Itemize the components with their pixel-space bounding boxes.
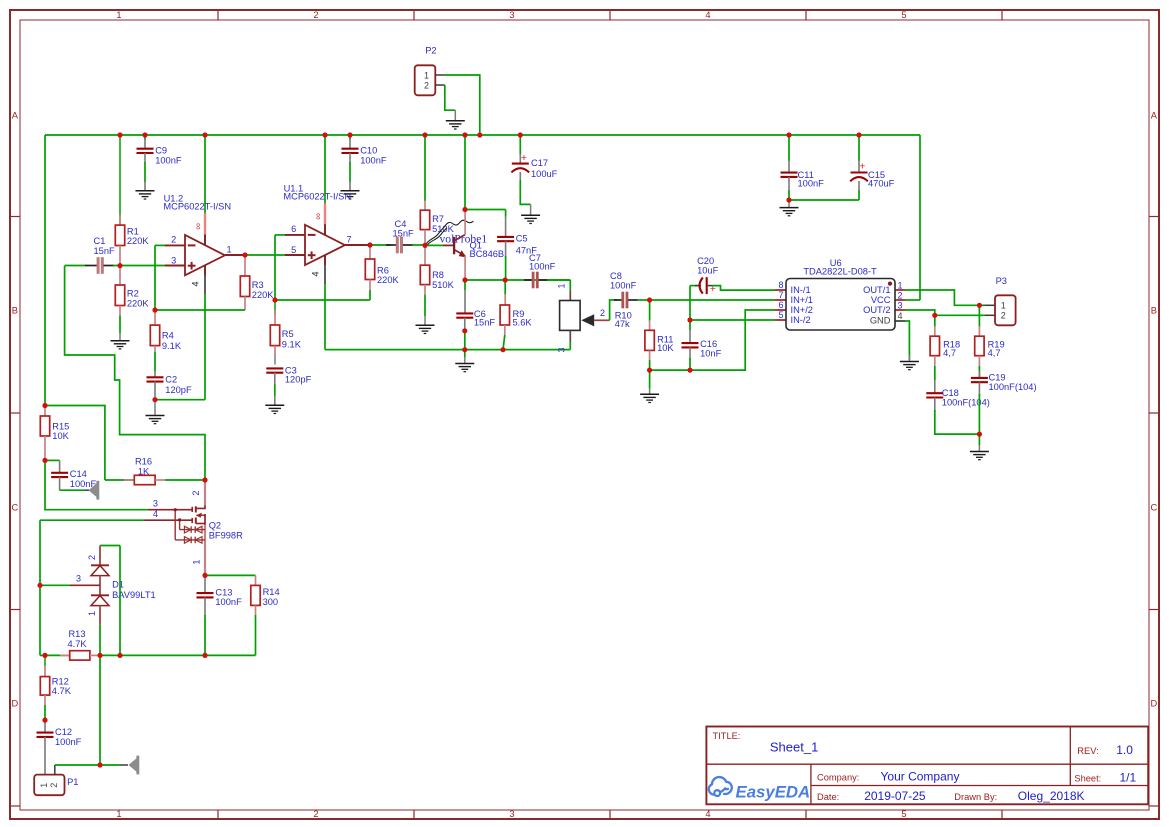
U1.2 power pin	[204, 135, 206, 214]
wire U6 OUT2 to P3 pin2	[905, 310, 985, 315]
junction node U1.1 output R6	[367, 242, 372, 247]
svg-text:Date:: Date:	[817, 792, 839, 802]
transistor Q1	[425, 244, 444, 246]
svg-text:2: 2	[313, 809, 318, 819]
title block	[706, 727, 1148, 805]
svg-text:510K: 510K	[432, 280, 455, 290]
junction node C5 R9 C7	[503, 277, 508, 282]
svg-text:1: 1	[557, 283, 567, 288]
capacitor C8	[614, 299, 622, 301]
wire R15 top to R16 drop	[45, 406, 105, 481]
ground for C3	[265, 404, 284, 406]
svg-text:4.7K: 4.7K	[67, 639, 87, 649]
svg-text:GND: GND	[870, 315, 891, 325]
svg-text:2: 2	[171, 235, 176, 245]
svg-text:3: 3	[898, 301, 903, 311]
svg-text:C18: C18	[942, 388, 959, 398]
svg-text:2: 2	[191, 490, 201, 495]
svg-text:1/1: 1/1	[1120, 770, 1137, 784]
svg-text:4,7: 4,7	[988, 348, 1001, 358]
junction node R15 top	[42, 403, 47, 408]
pin 2 stub of P2	[435, 84, 445, 86]
pin dot Q2 gate2	[178, 518, 181, 521]
wire pot wiper riser to C8	[610, 300, 617, 320]
resistor R12	[44, 655, 46, 666]
svg-text:P2: P2	[425, 45, 436, 55]
svg-text:220K: 220K	[127, 298, 150, 308]
svg-text:100nF: 100nF	[798, 179, 825, 189]
junction node R13 R12	[42, 653, 47, 658]
svg-text:4: 4	[311, 271, 321, 276]
resistor R4	[154, 310, 156, 325]
svg-text:100nF: 100nF	[55, 737, 82, 747]
svg-text:+: +	[859, 160, 865, 172]
svg-text:100nF: 100nF	[529, 261, 556, 271]
svg-text:4: 4	[705, 809, 710, 819]
capacitor C5	[505, 210, 507, 217]
svg-text:1: 1	[1001, 301, 1006, 311]
capacitor C7	[524, 279, 532, 281]
resistor R14	[205, 574, 256, 576]
junction node C13 row	[202, 653, 207, 658]
svg-text:+: +	[710, 283, 716, 295]
ground for C10	[341, 190, 360, 192]
junction node R5 R6	[272, 297, 277, 302]
ground for C17	[530, 204, 532, 214]
pin dot Q2 gate1	[174, 508, 177, 511]
op-amp U1.2	[165, 244, 185, 246]
svg-text:Oleg_2018K: Oleg_2018K	[1018, 789, 1085, 803]
svg-text:4.7K: 4.7K	[52, 686, 72, 696]
svg-text:TITLE:: TITLE:	[713, 731, 741, 741]
wire input feedback stepped path	[65, 266, 205, 480]
net flag arrow at P1	[129, 758, 137, 772]
capacitor C6	[464, 280, 466, 290]
svg-text:120pF: 120pF	[165, 385, 192, 395]
capacitor C14	[45, 459, 60, 461]
junction rail C10	[347, 132, 352, 137]
svg-text:R16: R16	[135, 457, 152, 467]
connector P3	[995, 295, 1016, 325]
wire C2 bottom to U1.2 pin4 drop	[155, 399, 205, 401]
svg-text:A: A	[12, 110, 19, 120]
svg-text:2: 2	[87, 555, 97, 560]
junction node R16 Q2 drain	[202, 477, 207, 482]
svg-text:P1: P1	[67, 777, 78, 787]
junction node Q2 source C13 R14	[202, 573, 207, 578]
svg-text:3: 3	[171, 255, 176, 265]
svg-text:6: 6	[778, 300, 783, 310]
pin 1 stub of P2	[435, 74, 445, 76]
ground for R2	[111, 340, 130, 342]
resistor R6	[369, 245, 371, 259]
junction rail R7	[422, 132, 427, 137]
net flag arrow at C14	[89, 483, 97, 497]
capacitor C2	[154, 371, 156, 377]
wire R15 bottom down to Q2 gate1	[45, 460, 148, 509]
svg-text:100nF(104): 100nF(104)	[989, 382, 1037, 392]
svg-text:220K: 220K	[377, 275, 400, 285]
svg-text:5: 5	[291, 245, 296, 255]
resistor R19	[978, 305, 980, 327]
junction node D1 pin3	[37, 583, 42, 588]
resistor R16	[105, 479, 134, 481]
signal row R13	[40, 654, 70, 656]
junction node R3 R4	[152, 307, 157, 312]
junction rail U1.1 power	[322, 132, 327, 137]
svg-text:47k: 47k	[615, 319, 630, 329]
junction rail U1.2 power	[202, 132, 207, 137]
svg-text:C12: C12	[55, 727, 72, 737]
svg-text:OUT/2: OUT/2	[863, 305, 890, 315]
capacitor C11	[788, 135, 790, 161]
svg-text:1: 1	[116, 809, 121, 819]
potentiometer R10	[569, 280, 571, 290]
svg-text:REV:: REV:	[1077, 746, 1098, 756]
ground for C2	[154, 400, 156, 415]
svg-text:4: 4	[153, 509, 158, 519]
svg-text:1: 1	[87, 611, 97, 616]
wire Q2 gate2 drop	[39, 520, 41, 655]
junction rail C17	[518, 132, 523, 137]
svg-text:2: 2	[600, 308, 605, 318]
svg-text:R1: R1	[127, 226, 139, 236]
svg-text:5: 5	[901, 809, 906, 819]
resistor R3	[244, 255, 246, 276]
transistor Q2 BF998R	[204, 480, 206, 507]
svg-text:C1: C1	[94, 236, 106, 246]
svg-text:3: 3	[557, 347, 567, 352]
svg-text:4: 4	[898, 311, 903, 321]
svg-text:5: 5	[901, 10, 906, 20]
svg-text:3: 3	[153, 499, 158, 509]
svg-text:EasyEDA: EasyEDA	[736, 782, 811, 801]
voltage probe volProbe1	[426, 227, 445, 245]
svg-text:C: C	[1150, 503, 1157, 513]
svg-text:470uF: 470uF	[868, 179, 895, 189]
wire C11 C15 bottoms	[789, 199, 859, 201]
svg-text:BC846B: BC846B	[470, 249, 505, 259]
resistor R15	[44, 406, 46, 417]
junction node R9 bottom	[500, 347, 505, 352]
svg-text:10uF: 10uF	[697, 266, 719, 276]
capacitor C4	[386, 244, 396, 246]
junction rail P2	[477, 132, 482, 137]
connector P2	[415, 65, 436, 95]
wire emitter node	[465, 279, 570, 281]
svg-text:9.1K: 9.1K	[282, 340, 302, 350]
svg-text:1: 1	[191, 559, 201, 564]
EasyEDA logo	[709, 777, 732, 796]
ground for C9	[136, 190, 155, 192]
junction node R12 C12	[42, 718, 47, 723]
svg-text:IN-/1: IN-/1	[791, 285, 811, 295]
junction rail C11	[786, 132, 791, 137]
wire D1 pin1 down to P1 pin2 node	[99, 655, 101, 765]
junction node C11 C15 ground	[786, 197, 791, 202]
capacitor C18	[934, 380, 936, 393]
svg-text:100nF: 100nF	[215, 597, 242, 607]
svg-text:1.0: 1.0	[1116, 743, 1133, 757]
svg-text:D: D	[11, 699, 18, 709]
wire U1.2 pin3 input	[120, 265, 166, 267]
svg-text:D: D	[1150, 699, 1157, 709]
wire bottom node R11 C16 to U6 pin6	[650, 310, 775, 370]
svg-text:B: B	[12, 306, 18, 316]
wire VCC riser to U6 pin2	[919, 135, 921, 300]
svg-text:R2: R2	[127, 289, 139, 299]
junction node R15 C14	[42, 458, 47, 463]
svg-text:100nF(104): 100nF(104)	[942, 398, 990, 408]
svg-text:220K: 220K	[127, 236, 150, 246]
svg-text:3: 3	[509, 809, 514, 819]
svg-text:C5: C5	[516, 234, 528, 244]
svg-text:C9: C9	[155, 145, 167, 155]
svg-text:VCC: VCC	[871, 295, 891, 305]
op-amp U1.1	[285, 234, 305, 236]
svg-text:Drawn By:: Drawn By:	[954, 792, 997, 802]
junction node C16 bottom	[687, 368, 692, 373]
svg-text:A: A	[1151, 110, 1158, 120]
junction node U1.2 output	[242, 252, 247, 257]
wire U1.1 output to C4	[369, 244, 391, 246]
svg-text:R7: R7	[432, 214, 444, 224]
svg-text:C14: C14	[70, 469, 87, 479]
connector P1	[34, 775, 64, 796]
resistor R2	[119, 266, 121, 285]
junction node C6 bottom	[462, 328, 467, 333]
junction node C2 ground	[152, 397, 157, 402]
svg-text:100nF: 100nF	[155, 155, 182, 165]
svg-text:C2: C2	[165, 375, 177, 385]
ground for C11	[788, 200, 790, 207]
svg-text:IN+/2: IN+/2	[791, 305, 813, 315]
svg-text:R14: R14	[263, 587, 280, 597]
svg-text:2: 2	[898, 291, 903, 301]
svg-text:220K: 220K	[252, 290, 275, 300]
capacitor C1	[65, 265, 86, 267]
wire U1.2 output to U1.1 pin5	[244, 254, 295, 256]
svg-text:1K: 1K	[138, 466, 150, 476]
capacitor C10	[349, 135, 351, 140]
capacitor C13	[204, 575, 206, 593]
capacitor C15 polarized	[858, 135, 860, 161]
capacitor C20 polarized	[689, 286, 691, 320]
junction node Q1 emitter C6	[462, 277, 467, 282]
svg-text:C13: C13	[215, 587, 232, 597]
svg-text:5: 5	[778, 310, 783, 320]
wire U1.2 pin2 feedback loop	[154, 245, 156, 310]
svg-text:C20: C20	[697, 256, 714, 266]
wire U6 OUT1 to P3 pin1	[905, 290, 979, 305]
svg-text:IN+/1: IN+/1	[791, 295, 813, 305]
Q2 protection diodes	[179, 520, 181, 530]
junction node C18 C19 ground	[977, 432, 982, 437]
diode D1 BAV99LT1	[100, 545, 120, 547]
IC U6 TDA2822L-D08-T	[775, 289, 786, 291]
resistor R1	[119, 135, 121, 225]
junction node C16 C20 pin5	[687, 317, 692, 322]
U1.1 power pin	[324, 135, 326, 204]
svg-text:R5: R5	[282, 329, 294, 339]
svg-text:4: 4	[705, 10, 710, 20]
resistor R7	[424, 135, 426, 201]
ground for P2 pin2	[454, 110, 456, 120]
svg-text:+: +	[521, 152, 527, 164]
wire U1.1 pin6 feedback loop	[274, 235, 276, 300]
junction rail R1	[117, 132, 122, 137]
svg-text:Q2: Q2	[209, 520, 221, 530]
svg-text:2: 2	[424, 80, 429, 90]
ground for R8	[416, 324, 435, 326]
ground for U6 pin4	[908, 355, 910, 361]
U1.2 pin4	[204, 265, 206, 275]
resistor R11	[649, 300, 651, 321]
svg-text:15nF: 15nF	[94, 246, 116, 256]
svg-text:∞: ∞	[313, 213, 324, 220]
svg-text:D1: D1	[112, 580, 124, 590]
junction rail Q1 collector	[462, 132, 467, 137]
U1.1 pin4	[324, 255, 326, 265]
svg-text:4: 4	[191, 281, 201, 286]
wire R6 bottom to R5 top	[275, 299, 370, 301]
svg-text:R3: R3	[252, 280, 264, 290]
svg-text:100nF: 100nF	[610, 280, 637, 290]
svg-text:100uF: 100uF	[531, 169, 558, 179]
svg-text:9.1K: 9.1K	[162, 341, 182, 351]
svg-text:7: 7	[778, 290, 783, 300]
junction node Q1 collector C5	[462, 207, 467, 212]
svg-text:300: 300	[263, 597, 279, 607]
wire U1.1 pin4 to analog ground rail	[325, 349, 570, 351]
wire left supply drop to R15	[44, 135, 46, 406]
svg-text:C: C	[11, 503, 18, 513]
svg-text:MCP6022T-I/SN: MCP6022T-I/SN	[283, 191, 351, 201]
svg-text:6: 6	[291, 224, 296, 234]
junction node C8 R11 pin7	[647, 297, 652, 302]
junction node R11 ground	[647, 368, 652, 373]
capacitor C12	[44, 720, 46, 733]
capacitor C3	[266, 367, 283, 369]
ground for C18 C19	[978, 434, 980, 445]
svg-text:R8: R8	[432, 270, 444, 280]
svg-text:C10: C10	[360, 145, 377, 155]
wire Q1 collector to rail	[464, 135, 466, 210]
junction node C1 R1 R2 pin3	[117, 263, 122, 268]
wire collector node to C5	[465, 209, 506, 211]
junction node C4 R7 R8 Q1 base	[422, 243, 427, 248]
resistor R8	[424, 245, 426, 265]
svg-text:10nF: 10nF	[700, 348, 722, 358]
wire P2 pin2 to ground	[445, 85, 456, 110]
svg-text:R13: R13	[68, 629, 85, 639]
svg-text:1: 1	[424, 70, 429, 80]
wire C16 top to U6 pin5	[690, 319, 775, 321]
junction node OUT1 R19	[977, 303, 982, 308]
svg-text:7: 7	[346, 234, 351, 244]
svg-text:MCP6022T-I/SN: MCP6022T-I/SN	[163, 201, 231, 211]
svg-text:B: B	[1151, 306, 1157, 316]
wire C8 node to U6 pin7	[650, 299, 775, 301]
svg-text:2: 2	[313, 10, 318, 20]
wire P1 pin2 to net flag	[54, 765, 56, 775]
wire U6 pin2 VCC	[905, 299, 920, 301]
resistor R9	[504, 280, 506, 295]
svg-text:BAV99LT1: BAV99LT1	[112, 590, 156, 600]
capacitor C9	[144, 135, 146, 140]
svg-text:TDA2822L-D08-T: TDA2822L-D08-T	[803, 267, 877, 277]
capacitor C17 polarized	[519, 135, 521, 155]
wire D1 top loop to signal row	[119, 546, 121, 656]
junction node P1 pin2 row	[97, 762, 102, 767]
junction node D1 row	[97, 653, 102, 658]
ground at analog rail	[464, 350, 466, 357]
svg-text:8: 8	[778, 280, 783, 290]
resistor R5	[274, 300, 276, 315]
svg-text:10K: 10K	[52, 431, 69, 441]
svg-text:∞: ∞	[193, 223, 204, 230]
svg-text:4,7: 4,7	[943, 348, 956, 358]
junction rail C15	[856, 132, 861, 137]
svg-text:3: 3	[76, 573, 81, 583]
wire U6 pin4 to ground	[905, 321, 909, 360]
wire R3 bottom to R4 top	[155, 309, 245, 311]
svg-text:15nF: 15nF	[474, 318, 496, 328]
junction rail C9	[142, 132, 147, 137]
svg-text:2: 2	[1001, 311, 1006, 321]
resistor R18	[934, 315, 936, 327]
svg-text:C19: C19	[989, 373, 1006, 383]
ground for R11	[649, 370, 651, 389]
svg-text:1: 1	[898, 281, 903, 291]
svg-text:Your Company: Your Company	[881, 770, 960, 784]
svg-text:Company:: Company:	[817, 773, 859, 783]
svg-text:5.6K: 5.6K	[513, 318, 533, 328]
svg-text:R4: R4	[162, 331, 174, 341]
svg-text:1: 1	[226, 244, 231, 254]
svg-text:C17: C17	[531, 158, 548, 168]
svg-text:Sheet:: Sheet:	[1074, 773, 1101, 783]
junction node analog rail ground	[462, 347, 467, 352]
svg-text:1: 1	[39, 783, 49, 788]
svg-text:3: 3	[509, 10, 514, 20]
svg-text:Sheet_1: Sheet_1	[770, 740, 818, 755]
svg-text:P3: P3	[996, 276, 1007, 286]
svg-text:2: 2	[49, 783, 59, 788]
svg-text:IN-/2: IN-/2	[791, 315, 811, 325]
wire main supply rail	[45, 134, 920, 136]
svg-text:1: 1	[116, 10, 121, 20]
capacitor C19	[978, 371, 980, 378]
capacitor C16	[689, 320, 691, 330]
junction node D1 loop row	[117, 653, 122, 658]
svg-text:BF998R: BF998R	[209, 531, 243, 541]
wire P2 pin1 to rail	[445, 75, 480, 135]
svg-text:OUT/1: OUT/1	[863, 285, 890, 295]
svg-text:10K: 10K	[657, 343, 674, 353]
svg-text:100nF: 100nF	[360, 155, 387, 165]
svg-text:R12: R12	[52, 677, 69, 687]
svg-text:15nF: 15nF	[393, 229, 415, 239]
svg-text:120pF: 120pF	[285, 374, 312, 384]
svg-text:2019-07-25: 2019-07-25	[864, 789, 926, 803]
junction node OUT2 R18	[932, 313, 937, 318]
